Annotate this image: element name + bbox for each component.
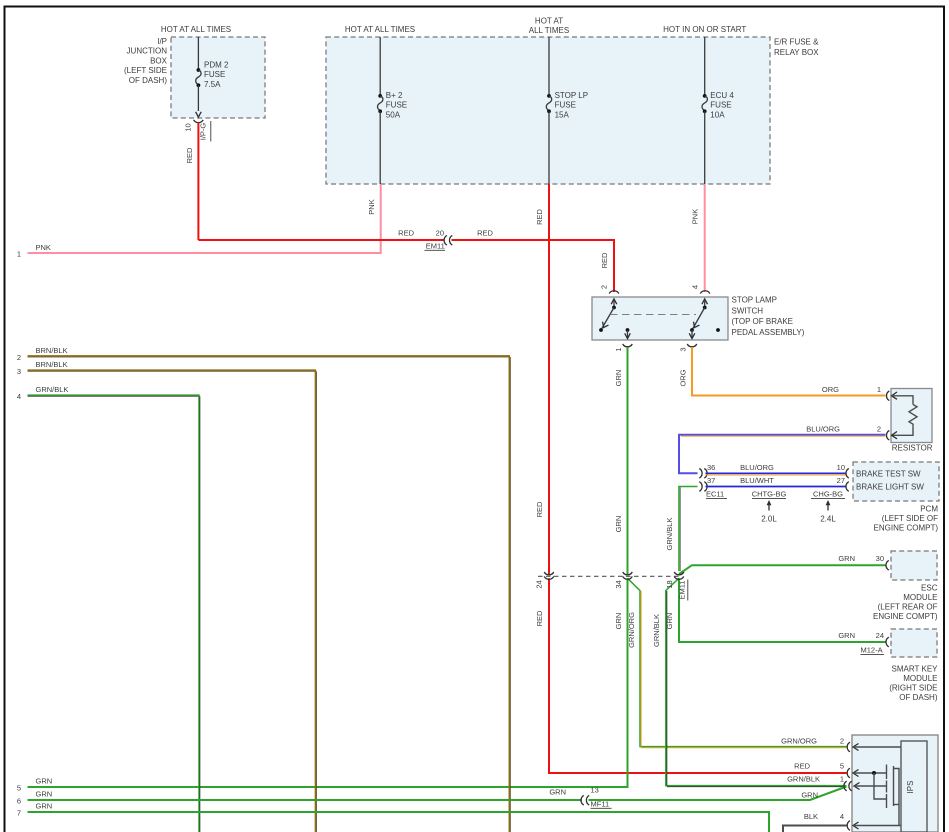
switch coupling dashed link	[610, 314, 696, 316]
svg-text:1: 1	[840, 775, 844, 784]
svg-text:24: 24	[535, 580, 544, 588]
switch blade (pin 2 side, open)	[599, 306, 616, 332]
svg-text:GRN: GRN	[36, 802, 53, 811]
svg-text:SWITCH: SWITCH	[732, 306, 764, 315]
wire RED from PDM 2 fuse down	[197, 123, 199, 241]
svg-text:27: 27	[837, 476, 845, 485]
svg-text:4: 4	[17, 392, 21, 401]
svg-text:PCM: PCM	[920, 505, 938, 514]
connector I/P-G pin 10	[183, 120, 211, 142]
svg-text:2.0L: 2.0L	[761, 515, 777, 524]
svg-text:(LEFT REAR OF: (LEFT REAR OF	[878, 603, 938, 612]
svg-text:RED: RED	[535, 610, 544, 626]
svg-text:I/P: I/P	[157, 37, 167, 46]
svg-text:RELAY BOX: RELAY BOX	[774, 48, 819, 57]
wire BLU/WHT from EC11 37 to PCM pin 27	[706, 476, 847, 486]
svg-text:2: 2	[17, 353, 21, 362]
svg-text:GRN: GRN	[36, 790, 53, 799]
PCM pin 10 connector	[846, 469, 849, 479]
svg-text:36: 36	[707, 463, 715, 472]
smart key module (right side of dash)	[889, 629, 938, 702]
svg-text:HOT IN ON OR START: HOT IN ON OR START	[663, 25, 746, 34]
wire RED from STOP LP fuse down to EM11 pin 24	[535, 184, 549, 574]
svg-text:PNK: PNK	[367, 199, 376, 214]
PCM (left side of engine compt)	[853, 462, 939, 533]
svg-text:MODULE: MODULE	[903, 674, 937, 683]
svg-text:MODULE: MODULE	[903, 593, 937, 602]
svg-text:7: 7	[17, 809, 21, 818]
wire PNK from B+ 2 fuse down to splice with wire 1	[28, 184, 381, 253]
svg-text:BRN/BLK: BRN/BLK	[36, 360, 68, 369]
fuse ECU 4 10A	[702, 37, 734, 184]
node CHG-BG (2.4L)	[811, 490, 845, 524]
IPS box	[852, 735, 938, 832]
wire GRN/BLK from EM11 18 up to EC11 pin 37	[665, 487, 698, 572]
IPS MOSFET symbol	[874, 765, 899, 826]
svg-text:PEDAL ASSEMBLY): PEDAL ASSEMBLY)	[732, 328, 805, 337]
wire 3 BRN/BLK	[17, 360, 317, 832]
svg-text:RED: RED	[477, 229, 493, 238]
svg-text:RED: RED	[535, 209, 544, 225]
switch blade (pin 4 side, closed to pin 3)	[690, 306, 707, 332]
svg-text:2: 2	[840, 737, 844, 746]
svg-text:PNK: PNK	[691, 209, 700, 224]
svg-text:FUSE: FUSE	[204, 70, 225, 79]
svg-text:SMART KEY: SMART KEY	[892, 665, 939, 674]
svg-text:STOP LAMP: STOP LAMP	[732, 296, 778, 305]
svg-text:10A: 10A	[710, 110, 725, 119]
junction dot on IPS pin 5 line	[872, 771, 876, 775]
svg-text:4: 4	[840, 812, 844, 821]
svg-text:BRN/BLK: BRN/BLK	[36, 346, 68, 355]
I/P junction box (left side of dash)	[124, 37, 265, 118]
svg-text:GRN: GRN	[838, 631, 855, 640]
svg-text:ORG: ORG	[822, 385, 839, 394]
svg-text:5: 5	[840, 761, 844, 770]
connector EC11 pin 37 (in-line)	[699, 476, 727, 498]
svg-text:GRN: GRN	[549, 788, 566, 797]
svg-text:7.5A: 7.5A	[204, 80, 221, 89]
wire BLK from below to IPS pin 4	[783, 812, 847, 832]
svg-text:BLU/ORG: BLU/ORG	[740, 463, 774, 472]
svg-text:GRN/BLK: GRN/BLK	[787, 775, 820, 784]
svg-text:3: 3	[17, 367, 21, 376]
svg-text:HOT AT: HOT AT	[535, 17, 563, 26]
svg-text:34: 34	[614, 580, 623, 588]
wire 4 GRN/BLK	[17, 385, 200, 832]
svg-text:JUNCTION: JUNCTION	[127, 47, 168, 56]
pin 3 of stop lamp switch	[678, 330, 697, 352]
svg-text:RED: RED	[398, 229, 414, 238]
svg-text:BRAKE LIGHT SW: BRAKE LIGHT SW	[856, 483, 924, 492]
wire 2 BRN/BLK	[17, 346, 510, 832]
smart key pin 24 connector	[886, 637, 889, 647]
svg-text:ESC: ESC	[921, 584, 938, 593]
svg-text:GRN: GRN	[614, 370, 623, 387]
stop lamp switch (top of brake pedal assembly)	[592, 296, 805, 341]
in-line connector EM11 row (dashed)	[538, 575, 680, 577]
svg-text:CHTG-BG: CHTG-BG	[752, 490, 787, 499]
svg-text:3: 3	[678, 347, 687, 351]
wire GRN from switch pin 1 down to EM11 pin 34	[614, 347, 628, 574]
svg-text:RED: RED	[185, 147, 194, 163]
svg-text:18: 18	[665, 580, 674, 588]
svg-text:BOX: BOX	[150, 56, 168, 65]
svg-text:RESISTOR: RESISTOR	[892, 444, 933, 453]
svg-text:OF DASH): OF DASH)	[899, 693, 938, 702]
ESC pin 30 connector	[886, 560, 889, 570]
connector MF11 pin 13 (in-line)	[581, 786, 612, 809]
connector EM11 pin 20 (in-line)	[425, 229, 453, 251]
svg-text:ALL TIMES: ALL TIMES	[529, 26, 569, 35]
svg-text:50A: 50A	[386, 110, 401, 119]
svg-text:BLU/WHT: BLU/WHT	[740, 476, 774, 485]
svg-text:37: 37	[707, 476, 715, 485]
IPS pin 4 connector	[847, 821, 901, 831]
svg-text:GRN/BLK: GRN/BLK	[652, 614, 661, 647]
svg-text:BRAKE TEST SW: BRAKE TEST SW	[856, 469, 921, 478]
svg-text:(RIGHT SIDE: (RIGHT SIDE	[889, 684, 937, 693]
svg-text:FUSE: FUSE	[710, 101, 731, 110]
svg-text:1: 1	[614, 347, 623, 351]
svg-text:GRN/BLK: GRN/BLK	[665, 518, 674, 551]
E/R fuse & relay box	[326, 37, 819, 184]
wire GRN from EM11 34 down, left to wire 5	[28, 578, 628, 787]
resistor internal element	[892, 396, 918, 436]
svg-text:GRN/ORG: GRN/ORG	[627, 612, 636, 648]
svg-text:GRN: GRN	[36, 777, 53, 786]
svg-text:20: 20	[436, 229, 444, 238]
svg-text:EM11: EM11	[677, 580, 686, 599]
svg-text:STOP LP: STOP LP	[555, 91, 589, 100]
wire 7 GRN	[17, 802, 769, 832]
pin 2 of stop lamp switch	[600, 285, 619, 308]
svg-text:M12-A: M12-A	[861, 645, 883, 654]
wire RED from EM11 24 down to IPS pin 5	[535, 578, 847, 773]
svg-text:5: 5	[17, 784, 21, 793]
svg-text:30: 30	[876, 554, 884, 563]
svg-text:ENGINE COMPT): ENGINE COMPT)	[873, 612, 938, 621]
connector EC11 pin 36 (in-line)	[699, 463, 715, 478]
svg-text:BLK: BLK	[804, 812, 818, 821]
svg-text:GRN: GRN	[838, 554, 855, 563]
svg-text:RED: RED	[600, 252, 609, 268]
svg-text:PDM 2: PDM 2	[204, 61, 229, 70]
svg-text:ORG: ORG	[678, 369, 687, 386]
svg-text:PNK: PNK	[36, 243, 51, 252]
svg-text:RED: RED	[535, 501, 544, 517]
wire GRN/ORG from EM11 34 down to IPS pin 2	[627, 578, 847, 748]
resistor pin 2 connector	[886, 431, 897, 441]
svg-text:GRN: GRN	[801, 791, 818, 800]
svg-text:10: 10	[837, 463, 845, 472]
fuse B+ 2 50A	[378, 37, 408, 184]
resistor pin 1 connector	[886, 391, 897, 401]
svg-text:2.4L: 2.4L	[820, 515, 836, 524]
svg-text:GRN/BLK: GRN/BLK	[36, 385, 69, 394]
pin 1 of stop lamp switch	[614, 328, 633, 351]
svg-text:(LEFT SIDE: (LEFT SIDE	[124, 66, 167, 75]
svg-text:HOT AT ALL TIMES: HOT AT ALL TIMES	[345, 25, 415, 34]
svg-text:EM11: EM11	[426, 242, 445, 251]
PCM pin 27 connector	[846, 482, 849, 492]
connector EM11 pin 18	[665, 572, 688, 601]
svg-text:6: 6	[17, 797, 21, 806]
pin 4 of stop lamp switch	[691, 285, 710, 308]
wire BLU/ORG from EC11 36 to PCM pin 10	[706, 463, 847, 475]
wire ORG from switch pin 3 to resistor pin 1	[678, 347, 885, 396]
svg-text:E/R FUSE &: E/R FUSE &	[774, 38, 819, 47]
fuse PDM 2 7.5A	[196, 37, 229, 117]
svg-text:GRN: GRN	[614, 613, 623, 630]
svg-text:RED: RED	[794, 761, 810, 770]
connector EM11 pin 24	[535, 572, 554, 589]
svg-text:GRN: GRN	[665, 613, 674, 630]
svg-text:ECU 4: ECU 4	[710, 91, 734, 100]
ESC module (left rear of engine compt)	[873, 551, 938, 621]
svg-text:10: 10	[183, 123, 192, 131]
svg-text:(TOP OF BRAKE: (TOP OF BRAKE	[732, 317, 794, 326]
svg-text:24: 24	[876, 631, 884, 640]
IPS pin 5 connector	[847, 768, 886, 778]
svg-text:MF11: MF11	[591, 799, 610, 808]
wire GRN from EM11 18 to ESC module pin 30	[679, 554, 887, 574]
node CHTG-BG (2.0L)	[752, 490, 787, 524]
svg-text:FUSE: FUSE	[386, 101, 407, 110]
wire 6 GRN through MF11 13 to IPS pin 1	[17, 787, 847, 806]
svg-text:1: 1	[17, 250, 21, 259]
connector EM11 pin 34	[614, 572, 632, 589]
wire GRN from EM11 18 down to smart key module pin 24	[665, 578, 887, 654]
svg-text:GRN: GRN	[614, 516, 623, 533]
svg-text:OF DASH): OF DASH)	[129, 76, 168, 85]
svg-text:CHG-BG: CHG-BG	[813, 490, 843, 499]
svg-text:ENGINE COMPT): ENGINE COMPT)	[874, 524, 939, 533]
resistor	[891, 389, 933, 453]
svg-text:15A: 15A	[555, 110, 570, 119]
spare contact dot	[716, 328, 720, 332]
svg-text:(LEFT SIDE OF: (LEFT SIDE OF	[882, 514, 938, 523]
wire GRN/BLK from EM11 18 down to IPS pin 1	[652, 578, 847, 787]
svg-text:4: 4	[691, 285, 700, 289]
IPS pin 1 connector (two wires)	[844, 781, 886, 791]
svg-text:BLU/ORG: BLU/ORG	[806, 424, 840, 433]
svg-text:EC11: EC11	[706, 490, 724, 499]
svg-text:2: 2	[600, 285, 609, 289]
svg-text:13: 13	[591, 786, 599, 795]
svg-text:1: 1	[877, 385, 881, 394]
svg-text:IPS: IPS	[906, 781, 915, 794]
svg-text:HOT AT ALL TIMES: HOT AT ALL TIMES	[161, 25, 231, 34]
svg-text:I/P-G: I/P-G	[198, 123, 207, 141]
wire BLU/ORG from resistor pin 2 down to EC11 pin 36	[679, 424, 886, 473]
wire PNK from ECU 4 fuse down to stop lamp switch pin 4	[691, 184, 705, 292]
svg-text:2: 2	[877, 424, 881, 433]
svg-text:FUSE: FUSE	[555, 101, 576, 110]
IPS pin 2 connector	[847, 742, 901, 752]
svg-text:GRN/ORG: GRN/ORG	[781, 737, 817, 746]
svg-text:B+ 2: B+ 2	[386, 91, 403, 100]
fuse STOP LP 15A	[546, 37, 588, 184]
wire RED horizontal from PDM 2 to stop lamp switch pin 2	[198, 229, 614, 293]
